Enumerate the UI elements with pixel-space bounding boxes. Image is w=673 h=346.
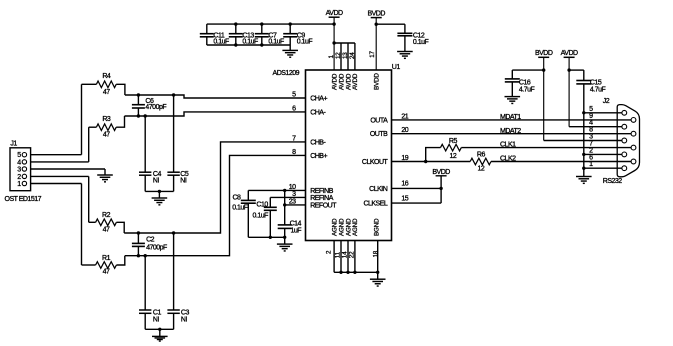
svg-text:NI: NI [153, 316, 160, 323]
svg-text:5: 5 [17, 152, 21, 159]
svg-text:REFOUT: REFOUT [310, 202, 337, 209]
svg-text:47: 47 [103, 269, 110, 276]
svg-text:REFINB: REFINB [310, 188, 334, 195]
svg-text:U1: U1 [392, 64, 401, 71]
svg-text:ADS1209: ADS1209 [273, 70, 300, 77]
svg-text:NI: NI [153, 177, 160, 184]
svg-text:NI: NI [181, 316, 188, 323]
svg-text:15: 15 [401, 196, 408, 203]
svg-text:2: 2 [589, 147, 593, 154]
svg-text:OUTB: OUTB [370, 131, 388, 138]
svg-text:6: 6 [589, 155, 593, 162]
svg-text:0.1uF: 0.1uF [253, 212, 269, 219]
svg-text:CHA+: CHA+ [310, 95, 327, 102]
svg-text:3: 3 [589, 134, 593, 141]
svg-text:CHB-: CHB- [310, 139, 326, 146]
svg-text:11: 11 [335, 251, 342, 258]
svg-text:CLK1: CLK1 [500, 141, 516, 148]
svg-text:3: 3 [17, 167, 21, 174]
svg-text:4.7uF: 4.7uF [519, 87, 535, 94]
svg-text:R4: R4 [102, 73, 111, 80]
svg-text:1: 1 [589, 161, 593, 168]
svg-text:NI: NI [180, 177, 187, 184]
svg-text:BVDD: BVDD [373, 73, 380, 90]
svg-text:R1: R1 [102, 255, 111, 262]
svg-text:OST ED1517: OST ED1517 [5, 196, 42, 203]
svg-text:OUTA: OUTA [370, 117, 388, 124]
svg-text:CLKIN: CLKIN [369, 186, 388, 193]
svg-text:C14: C14 [290, 221, 302, 228]
svg-text:MDAT1: MDAT1 [500, 114, 521, 121]
svg-text:2: 2 [17, 174, 21, 181]
svg-text:AGND: AGND [338, 218, 345, 236]
svg-text:CLK2: CLK2 [500, 155, 516, 162]
svg-text:47: 47 [103, 89, 110, 96]
svg-text:CHA-: CHA- [310, 109, 326, 116]
svg-text:1: 1 [17, 181, 21, 188]
svg-text:0.1uF: 0.1uF [232, 205, 248, 212]
svg-text:17: 17 [369, 50, 376, 57]
svg-text:C1: C1 [153, 309, 162, 316]
svg-text:5: 5 [589, 106, 593, 113]
svg-text:0.1uF: 0.1uF [297, 38, 313, 45]
svg-text:J2: J2 [603, 98, 610, 105]
svg-text:16: 16 [401, 180, 408, 187]
svg-text:0.1uF: 0.1uF [268, 38, 284, 45]
svg-text:7: 7 [589, 141, 593, 148]
svg-text:24: 24 [349, 52, 356, 59]
svg-text:12: 12 [450, 153, 457, 160]
svg-text:BVDD: BVDD [367, 10, 385, 17]
svg-text:12: 12 [478, 166, 485, 173]
svg-text:4: 4 [17, 159, 21, 166]
svg-text:C16: C16 [519, 79, 531, 86]
svg-text:REFINA: REFINA [310, 195, 334, 202]
svg-text:C8: C8 [232, 195, 241, 202]
svg-text:9: 9 [589, 113, 593, 120]
svg-text:0.1uF: 0.1uF [242, 38, 258, 45]
svg-text:C3: C3 [181, 309, 190, 316]
svg-text:18: 18 [372, 250, 379, 257]
svg-text:J1: J1 [10, 140, 17, 147]
svg-text:0.1uF: 0.1uF [213, 38, 229, 45]
svg-text:22: 22 [348, 251, 355, 258]
svg-text:RS232: RS232 [603, 178, 623, 185]
svg-text:MDAT2: MDAT2 [500, 128, 521, 135]
svg-text:R6: R6 [477, 152, 486, 159]
svg-text:R5: R5 [449, 138, 458, 145]
svg-text:BVDD: BVDD [535, 50, 553, 57]
svg-text:4700pF: 4700pF [146, 245, 167, 252]
svg-text:BGND: BGND [373, 218, 380, 236]
svg-text:4: 4 [589, 120, 593, 127]
svg-text:CLKSEL: CLKSEL [363, 201, 387, 208]
svg-text:R3: R3 [102, 116, 111, 123]
svg-text:AGND: AGND [352, 218, 359, 236]
svg-text:AVDD: AVDD [561, 50, 578, 57]
svg-text:4.7uF: 4.7uF [590, 87, 606, 94]
svg-text:BVDD: BVDD [432, 169, 450, 176]
svg-text:CLKOUT: CLKOUT [362, 159, 389, 166]
svg-text:47: 47 [103, 227, 110, 234]
svg-text:12: 12 [335, 52, 342, 59]
svg-text:AVDD: AVDD [338, 73, 345, 90]
svg-text:C15: C15 [590, 79, 602, 86]
svg-text:4700pF: 4700pF [145, 104, 166, 111]
svg-text:AVDD: AVDD [352, 73, 359, 90]
svg-text:C2: C2 [146, 236, 155, 243]
svg-text:1uF: 1uF [291, 228, 302, 235]
svg-text:8: 8 [589, 127, 593, 134]
svg-text:AVDD: AVDD [326, 10, 343, 17]
svg-text:0.1uF: 0.1uF [413, 39, 429, 46]
svg-text:47: 47 [103, 132, 110, 139]
svg-text:CHB+: CHB+ [310, 153, 327, 160]
svg-text:R2: R2 [102, 212, 111, 219]
svg-text:C10: C10 [256, 202, 268, 209]
